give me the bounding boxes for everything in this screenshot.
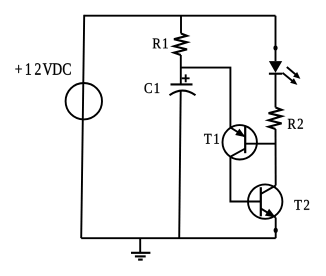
wire T1 emitter to T2 base <box>230 157 260 202</box>
transistor T2 <box>248 184 282 218</box>
wire R1 to C1 <box>180 55 182 84</box>
label T2 <box>294 200 309 210</box>
ground <box>131 238 150 259</box>
wire top rail <box>84 15 275 17</box>
resistor R1 <box>174 34 187 56</box>
label +12VDC <box>15 63 70 75</box>
capacitor C1 <box>170 74 196 95</box>
wire C1 to bottom rail <box>179 91 181 238</box>
label C1 <box>145 83 160 93</box>
wire bottom rail <box>81 237 276 239</box>
transistor T1 <box>223 125 257 159</box>
junction node right rail upper <box>273 45 277 50</box>
wire middle rail top (top rail to R1) <box>180 16 182 34</box>
LED D1 <box>269 61 301 85</box>
wire LED to R2 <box>275 74 277 108</box>
wire left rail <box>81 15 84 238</box>
wire R2 to T2 collector <box>275 129 277 186</box>
voltage source V1 <box>66 83 102 119</box>
wire T1 base to right rail <box>245 143 275 145</box>
wire top rail to LED <box>275 16 277 61</box>
resistor R2 <box>269 108 282 130</box>
wire node A to T1 collector <box>181 68 231 128</box>
label R1 <box>153 38 168 48</box>
label R2 <box>288 119 303 129</box>
wire T2 emitter to bottom rail <box>275 218 277 239</box>
junction node right rail lower <box>274 228 278 233</box>
label T1 <box>204 134 219 144</box>
